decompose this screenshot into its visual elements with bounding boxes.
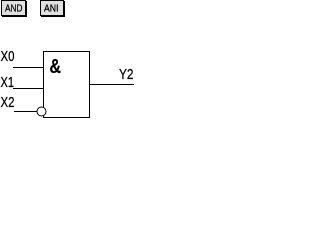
svg-text:Y2: Y2 [119,66,134,83]
wire output Y2 [90,84,135,86]
svg-text:&: & [50,56,62,78]
wire input X0 [13,67,44,69]
svg-text:X1: X1 [1,74,15,91]
svg-text:ANI: ANI [44,3,59,15]
AND gate U1 body [44,52,90,118]
svg-text:X0: X0 [1,48,15,65]
wire input X2 [14,111,37,113]
button ANI (instruction key) [41,1,65,17]
inverter bubble on X2 input [37,107,46,116]
button AND (instruction key) [2,1,27,17]
svg-text:AND: AND [5,3,23,15]
svg-text:X2: X2 [1,94,15,111]
wire input X1 [13,88,44,90]
